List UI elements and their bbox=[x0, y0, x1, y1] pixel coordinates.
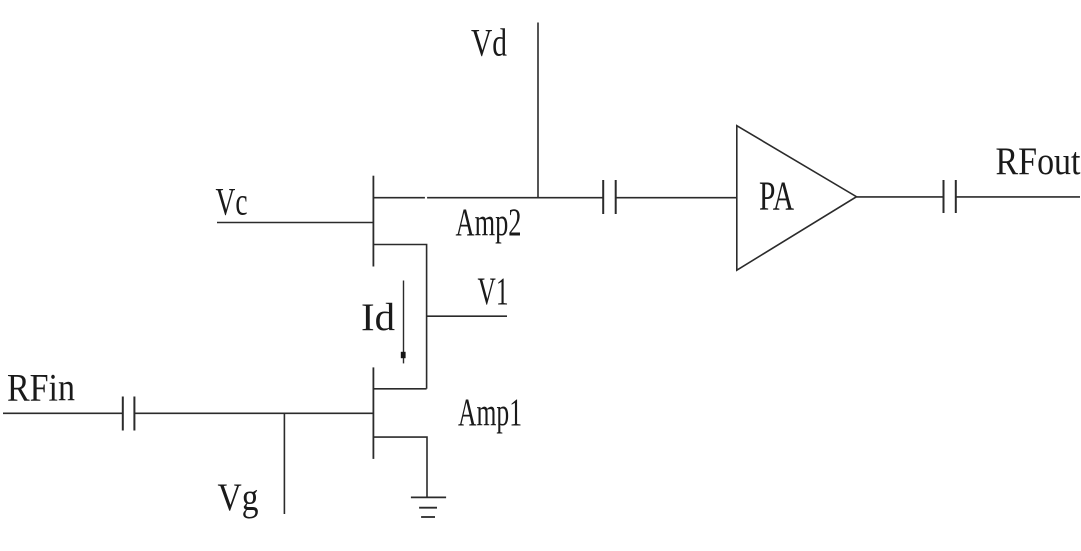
wire Amp1 source to ground bbox=[373, 437, 427, 497]
capacitor C2 output coupling bbox=[943, 180, 945, 213]
svg-text:PA: PA bbox=[759, 173, 794, 219]
ground bbox=[411, 496, 446, 498]
svg-text:V1: V1 bbox=[478, 270, 509, 313]
svg-text:Id: Id bbox=[361, 296, 396, 339]
wire Vd vertical supply line bbox=[537, 23, 539, 199]
svg-text:Amp1: Amp1 bbox=[458, 391, 522, 434]
svg-text:Vd: Vd bbox=[471, 22, 507, 65]
transistor Amp1 channel bar bbox=[372, 367, 374, 459]
svg-text:Vc: Vc bbox=[216, 181, 248, 224]
svg-text:RFin: RFin bbox=[7, 367, 75, 410]
transistor Amp2 channel bar bbox=[372, 176, 374, 267]
wire Id current arrow bbox=[403, 281, 405, 364]
wire PA output to C2 bbox=[857, 196, 944, 198]
wire Amp1 drain stub bbox=[373, 388, 426, 390]
svg-text:Amp2: Amp2 bbox=[456, 201, 522, 244]
svg-text:Vg: Vg bbox=[218, 476, 259, 519]
wire V1 tap bbox=[427, 315, 507, 317]
wire C2 to RFout bbox=[956, 196, 1080, 198]
wire Amp2 drain stub bbox=[373, 197, 425, 199]
capacitor C3 input coupling bbox=[122, 397, 124, 431]
wire Vg bias line bbox=[283, 413, 285, 514]
wire drain to C1 bbox=[427, 197, 603, 199]
capacitor C1 interstage bbox=[602, 180, 604, 214]
svg-text:RFout: RFout bbox=[996, 140, 1081, 183]
wire RFin lead bbox=[3, 412, 122, 414]
wire C1 to PA input bbox=[616, 197, 737, 199]
wire Amp2 source stub bbox=[373, 245, 426, 389]
op-amp PA power amplifier triangle bbox=[737, 126, 857, 271]
wire Vc gate feed bbox=[217, 222, 373, 224]
wire C3 to Amp1 gate bbox=[134, 412, 373, 414]
